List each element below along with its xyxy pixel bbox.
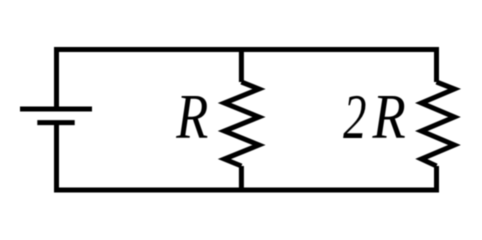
svg-text:R: R bbox=[372, 81, 406, 152]
svg-text:2: 2 bbox=[343, 82, 366, 153]
svg-text:R: R bbox=[175, 81, 208, 152]
